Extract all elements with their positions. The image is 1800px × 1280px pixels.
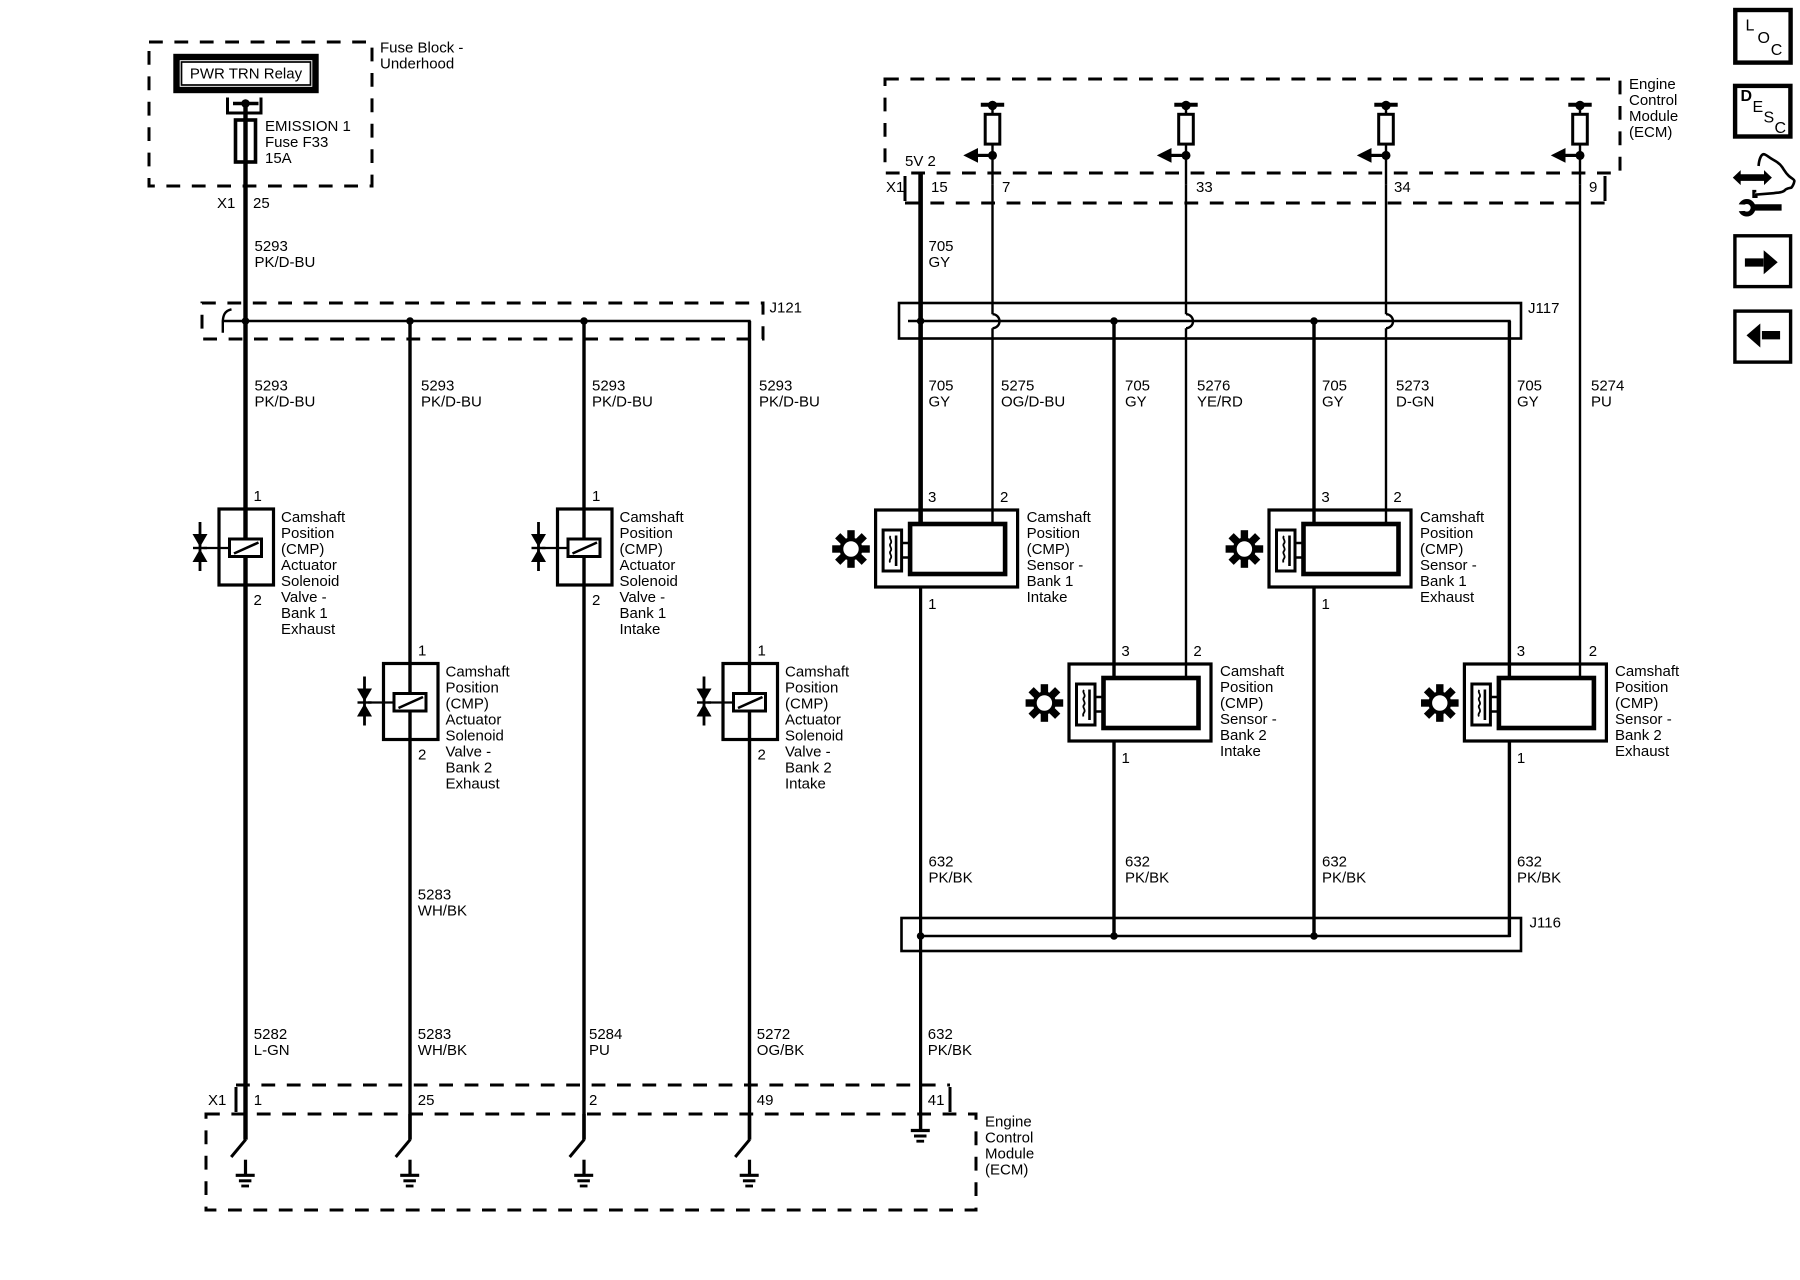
svg-text:(CMP): (CMP) [1615, 695, 1658, 712]
svg-text:5274: 5274 [1591, 378, 1624, 395]
svg-text:1: 1 [418, 643, 426, 660]
svg-text:Fuse Block -: Fuse Block - [380, 40, 463, 57]
svg-text:GY: GY [929, 254, 951, 271]
svg-text:Exhaust: Exhaust [446, 776, 501, 793]
svg-text:632: 632 [929, 854, 954, 871]
svg-text:Engine: Engine [985, 1114, 1032, 1131]
svg-text:PU: PU [1591, 394, 1612, 411]
svg-text:S: S [1764, 110, 1775, 127]
svg-text:(ECM): (ECM) [985, 1162, 1028, 1179]
svg-text:(CMP): (CMP) [1220, 695, 1263, 712]
svg-text:Actuator: Actuator [620, 557, 676, 574]
svg-text:GY: GY [1125, 394, 1147, 411]
svg-text:25: 25 [253, 195, 270, 212]
svg-text:Actuator: Actuator [281, 557, 337, 574]
svg-text:9: 9 [1589, 179, 1597, 196]
svg-text:Solenoid: Solenoid [620, 573, 678, 590]
svg-text:X1: X1 [217, 195, 235, 212]
svg-text:632: 632 [1125, 854, 1150, 871]
svg-text:1: 1 [758, 643, 766, 660]
svg-text:D-GN: D-GN [1396, 394, 1434, 411]
svg-text:705: 705 [929, 378, 954, 395]
svg-text:Actuator: Actuator [446, 712, 502, 729]
svg-text:Solenoid: Solenoid [281, 573, 339, 590]
svg-text:15: 15 [931, 179, 948, 196]
svg-text:Exhaust: Exhaust [281, 621, 336, 638]
svg-text:5293: 5293 [759, 378, 792, 395]
svg-text:705: 705 [929, 238, 954, 255]
svg-text:PK/D-BU: PK/D-BU [592, 394, 653, 411]
svg-text:1: 1 [254, 488, 262, 505]
svg-text:632: 632 [1517, 854, 1542, 871]
svg-text:Intake: Intake [785, 776, 826, 793]
svg-text:5V 2: 5V 2 [905, 153, 936, 170]
svg-text:O: O [1758, 30, 1770, 47]
svg-text:Sensor -: Sensor - [1420, 557, 1477, 574]
svg-text:Camshaft: Camshaft [1420, 509, 1485, 526]
svg-text:C: C [1775, 120, 1787, 137]
svg-text:5293: 5293 [255, 378, 288, 395]
svg-text:5293: 5293 [592, 378, 625, 395]
svg-text:705: 705 [1322, 378, 1347, 395]
svg-text:Bank 1: Bank 1 [1420, 573, 1467, 590]
svg-text:2: 2 [758, 747, 766, 764]
svg-text:X1: X1 [208, 1092, 226, 1109]
svg-text:PK/BK: PK/BK [1125, 870, 1169, 887]
svg-text:J116: J116 [1530, 915, 1561, 932]
svg-text:D: D [1741, 88, 1753, 105]
svg-text:Bank 1: Bank 1 [620, 605, 667, 622]
svg-text:L-GN: L-GN [254, 1042, 290, 1059]
svg-text:Control: Control [1629, 92, 1677, 109]
svg-text:Intake: Intake [1027, 589, 1068, 606]
svg-text:Position: Position [281, 525, 334, 542]
svg-text:Bank 1: Bank 1 [1027, 573, 1074, 590]
svg-text:3: 3 [1517, 643, 1525, 660]
svg-text:5275: 5275 [1001, 378, 1034, 395]
svg-text:Position: Position [446, 680, 499, 697]
svg-text:J121: J121 [770, 300, 803, 317]
svg-text:1: 1 [1322, 596, 1330, 613]
svg-text:2: 2 [1000, 489, 1008, 506]
svg-text:Camshaft: Camshaft [785, 664, 850, 681]
svg-text:33: 33 [1196, 179, 1213, 196]
svg-text:Camshaft: Camshaft [281, 509, 346, 526]
svg-text:Position: Position [785, 680, 838, 697]
svg-text:5272: 5272 [757, 1026, 790, 1043]
svg-text:C: C [1771, 42, 1783, 59]
svg-text:Module: Module [1629, 108, 1678, 125]
svg-text:2: 2 [1193, 643, 1201, 660]
svg-text:PK/D-BU: PK/D-BU [255, 394, 316, 411]
svg-text:OG/BK: OG/BK [757, 1042, 805, 1059]
svg-text:7: 7 [1002, 179, 1010, 196]
svg-text:Actuator: Actuator [785, 712, 841, 729]
svg-text:EMISSION 1: EMISSION 1 [265, 118, 351, 135]
svg-text:Engine: Engine [1629, 76, 1676, 93]
svg-text:(ECM): (ECM) [1629, 124, 1672, 141]
svg-text:1: 1 [1122, 750, 1130, 767]
svg-text:(CMP): (CMP) [1420, 541, 1463, 558]
svg-text:Bank 2: Bank 2 [1220, 727, 1267, 744]
svg-text:41: 41 [928, 1092, 945, 1109]
svg-text:5283: 5283 [418, 887, 451, 904]
svg-text:2: 2 [254, 592, 262, 609]
svg-text:Solenoid: Solenoid [785, 728, 843, 745]
svg-text:Valve -: Valve - [281, 589, 327, 606]
svg-text:5276: 5276 [1197, 378, 1230, 395]
svg-text:Exhaust: Exhaust [1615, 743, 1670, 760]
svg-text:632: 632 [928, 1026, 953, 1043]
svg-text:Camshaft: Camshaft [1615, 663, 1680, 680]
svg-text:PK/BK: PK/BK [1517, 870, 1561, 887]
svg-text:GY: GY [1322, 394, 1344, 411]
svg-text:2: 2 [592, 592, 600, 609]
svg-text:Sensor -: Sensor - [1027, 557, 1084, 574]
svg-text:Sensor -: Sensor - [1615, 711, 1672, 728]
svg-text:Bank 2: Bank 2 [1615, 727, 1662, 744]
svg-text:GY: GY [929, 394, 951, 411]
svg-text:X1: X1 [886, 179, 904, 196]
svg-text:5283: 5283 [418, 1026, 451, 1043]
svg-text:1: 1 [928, 596, 936, 613]
svg-text:PK/BK: PK/BK [1322, 870, 1366, 887]
svg-text:YE/RD: YE/RD [1197, 394, 1243, 411]
svg-text:Module: Module [985, 1146, 1034, 1163]
svg-text:Position: Position [1027, 525, 1080, 542]
svg-text:Camshaft: Camshaft [620, 509, 685, 526]
svg-text:34: 34 [1394, 179, 1411, 196]
svg-text:Exhaust: Exhaust [1420, 589, 1475, 606]
svg-text:PWR TRN Relay: PWR TRN Relay [190, 66, 303, 83]
svg-text:Valve -: Valve - [785, 744, 831, 761]
svg-text:Intake: Intake [1220, 743, 1261, 760]
svg-text:Camshaft: Camshaft [1220, 663, 1285, 680]
svg-text:J117: J117 [1528, 300, 1559, 317]
svg-text:(CMP): (CMP) [1027, 541, 1070, 558]
svg-text:WH/BK: WH/BK [418, 903, 467, 920]
svg-text:L: L [1746, 18, 1755, 35]
svg-text:1: 1 [1517, 750, 1525, 767]
svg-text:1: 1 [592, 488, 600, 505]
svg-text:Solenoid: Solenoid [446, 728, 504, 745]
svg-text:5282: 5282 [254, 1026, 287, 1043]
svg-text:Underhood: Underhood [380, 56, 454, 73]
svg-text:705: 705 [1517, 378, 1542, 395]
svg-text:2: 2 [418, 747, 426, 764]
svg-text:25: 25 [418, 1092, 435, 1109]
svg-text:3: 3 [1121, 643, 1129, 660]
svg-text:Position: Position [1615, 679, 1668, 696]
svg-text:Intake: Intake [620, 621, 661, 638]
svg-text:5284: 5284 [589, 1026, 622, 1043]
svg-text:3: 3 [1321, 489, 1329, 506]
svg-text:Position: Position [1420, 525, 1473, 542]
svg-text:WH/BK: WH/BK [418, 1042, 467, 1059]
svg-text:Position: Position [1220, 679, 1273, 696]
svg-text:49: 49 [757, 1092, 774, 1109]
svg-text:PK/D-BU: PK/D-BU [421, 394, 482, 411]
svg-text:PK/D-BU: PK/D-BU [255, 254, 316, 271]
svg-text:5273: 5273 [1396, 378, 1429, 395]
svg-text:5293: 5293 [421, 378, 454, 395]
svg-text:2: 2 [589, 1092, 597, 1109]
svg-text:3: 3 [928, 489, 936, 506]
svg-text:PK/BK: PK/BK [928, 1042, 972, 1059]
svg-text:PK/BK: PK/BK [929, 870, 973, 887]
svg-text:Bank 1: Bank 1 [281, 605, 328, 622]
svg-text:15A: 15A [265, 150, 292, 167]
svg-text:GY: GY [1517, 394, 1539, 411]
svg-text:Bank 2: Bank 2 [446, 760, 493, 777]
svg-text:1: 1 [254, 1092, 262, 1109]
svg-text:PU: PU [589, 1042, 610, 1059]
svg-text:(CMP): (CMP) [785, 696, 828, 713]
svg-text:Bank 2: Bank 2 [785, 760, 832, 777]
svg-text:Fuse F33: Fuse F33 [265, 134, 328, 151]
svg-text:Position: Position [620, 525, 673, 542]
svg-text:Camshaft: Camshaft [1027, 509, 1092, 526]
svg-text:(CMP): (CMP) [446, 696, 489, 713]
svg-text:632: 632 [1322, 854, 1347, 871]
svg-text:E: E [1753, 99, 1764, 116]
svg-text:Camshaft: Camshaft [446, 664, 511, 681]
svg-text:705: 705 [1125, 378, 1150, 395]
svg-text:5293: 5293 [255, 238, 288, 255]
svg-text:Valve -: Valve - [446, 744, 492, 761]
svg-text:(CMP): (CMP) [281, 541, 324, 558]
svg-text:OG/D-BU: OG/D-BU [1001, 394, 1065, 411]
svg-text:Valve -: Valve - [620, 589, 666, 606]
svg-text:(CMP): (CMP) [620, 541, 663, 558]
svg-text:Control: Control [985, 1130, 1033, 1147]
svg-text:PK/D-BU: PK/D-BU [759, 394, 820, 411]
svg-text:2: 2 [1393, 489, 1401, 506]
svg-text:Sensor -: Sensor - [1220, 711, 1277, 728]
svg-text:2: 2 [1589, 643, 1597, 660]
